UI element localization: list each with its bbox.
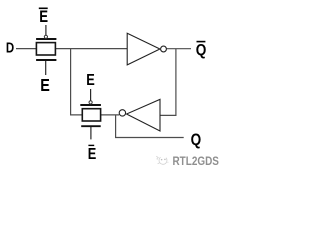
svg-text:E: E [86,72,95,90]
svg-text:RTL2GDS: RTL2GDS [173,154,219,168]
svg-text:E: E [39,8,48,27]
svg-text:Q: Q [191,130,202,149]
svg-text:Q: Q [196,42,207,59]
svg-text:D: D [6,39,14,56]
svg-text:E: E [40,76,50,96]
svg-text:E: E [88,146,97,164]
